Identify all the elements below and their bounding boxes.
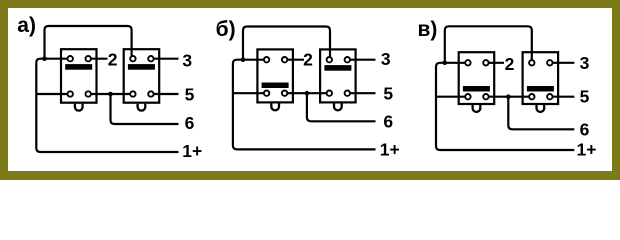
pin contact 2 of v-left [483, 60, 488, 65]
pin contact 1 of b-right [327, 57, 332, 62]
pin contact 4 of a-right [148, 91, 153, 96]
movable contact bar of a-right [128, 64, 155, 70]
movable contact bar of a-left [65, 64, 92, 70]
relay contact group a-left [61, 49, 97, 102]
junction dot left bus v [443, 61, 448, 66]
relay contact group v-right [523, 52, 559, 104]
pin contact 2 of b-left [282, 57, 287, 62]
pin contact 2 of a-right [148, 56, 153, 61]
svg-text:6: 6 [580, 120, 590, 140]
wire pin 5 v [550, 96, 575, 98]
wire top jumper a [45, 26, 132, 59]
pin contact 3 of b-right [327, 91, 332, 96]
wire pin 2 a [88, 58, 107, 60]
wire pin 6 b [307, 93, 376, 121]
svg-text:а): а) [17, 14, 36, 37]
orientation key bump of a-left [75, 104, 83, 111]
pin contact 1 of a-right [130, 56, 135, 61]
svg-text:3: 3 [381, 49, 391, 69]
svg-text:2: 2 [303, 49, 313, 69]
svg-text:5: 5 [185, 85, 195, 105]
wire left bus v [436, 63, 574, 150]
wire bottom bus seg2 v [486, 96, 532, 98]
wire pin 2 b [285, 59, 304, 61]
orientation key bump of b-left [271, 103, 279, 110]
wire left bus b [233, 60, 376, 150]
pin contact 1 of v-left [465, 60, 470, 65]
svg-text:в): в) [418, 18, 438, 41]
svg-text:6: 6 [185, 113, 195, 133]
pin contact 2 of v-right [547, 60, 552, 65]
movable contact bar of b-right [324, 65, 351, 71]
pin contact 1 of v-right [529, 60, 534, 65]
junction dot left bus a [42, 56, 47, 61]
wire left bus a [36, 59, 178, 152]
svg-text:2: 2 [108, 50, 118, 70]
pin contact 3 of v-left [465, 94, 470, 99]
svg-text:2: 2 [505, 54, 515, 74]
svg-text:6: 6 [383, 112, 393, 132]
wire pin 2 v [486, 62, 504, 64]
wire bottom bus seg1 v [436, 96, 468, 98]
wire pin 5 a [151, 93, 179, 95]
svg-text:5: 5 [580, 87, 590, 107]
orientation key bump of b-right [334, 103, 342, 110]
pin contact 4 of v-right [547, 94, 552, 99]
pin contact 4 of a-left [86, 91, 91, 96]
wire bottom bus seg1 a [36, 93, 70, 95]
svg-text:3: 3 [580, 53, 590, 73]
wire bottom bus seg2 b [285, 92, 330, 94]
movable contact bar of v-right [527, 86, 554, 92]
pin contact 1 of a-left [68, 56, 73, 61]
svg-text:3: 3 [182, 51, 192, 71]
wire top jumper b [243, 27, 330, 60]
pin contact 3 of b-left [264, 91, 269, 96]
pin contact 2 of b-right [345, 57, 350, 62]
movable contact bar of b-left [262, 83, 289, 89]
junction dot pin 6 v [506, 94, 511, 99]
pin contact 3 of v-right [529, 94, 534, 99]
junction dot left bus b [241, 57, 246, 62]
svg-text:1+: 1+ [577, 140, 597, 160]
wire pin 6 v [508, 97, 574, 130]
wire pin 6 a [111, 94, 179, 124]
pin contact 4 of b-right [345, 91, 350, 96]
svg-text:5: 5 [383, 84, 393, 104]
relay contact group b-right [320, 49, 356, 102]
orientation key bump of v-left [473, 105, 481, 112]
wire bottom bus seg1 b [233, 92, 267, 94]
relay contact group v-left [459, 52, 495, 104]
junction dot pin 6 b [305, 91, 310, 96]
relay contact group a-right [124, 49, 160, 102]
pin contact 3 of a-left [68, 91, 73, 96]
pin contact 1 of b-left [264, 57, 269, 62]
wire pin 5 b [347, 92, 375, 94]
pin contact 2 of a-left [86, 56, 91, 61]
pin contact 4 of v-left [483, 94, 488, 99]
wire pin 3 b [347, 59, 375, 61]
svg-text:1+: 1+ [182, 141, 202, 161]
wire pin 3 v [550, 62, 575, 64]
wire bottom bus seg2 a [88, 93, 133, 95]
wire top jumper v [445, 26, 532, 63]
relay contact group b-left [257, 49, 293, 102]
svg-text:1+: 1+ [380, 140, 400, 160]
wire pin 3 a [151, 58, 179, 60]
orientation key bump of a-right [138, 104, 146, 111]
pin contact 4 of b-left [282, 91, 287, 96]
svg-text:б): б) [216, 18, 236, 41]
movable contact bar of v-left [463, 86, 490, 92]
pin contact 3 of a-right [130, 91, 135, 96]
junction dot pin 6 a [108, 92, 113, 97]
orientation key bump of v-right [537, 105, 545, 112]
